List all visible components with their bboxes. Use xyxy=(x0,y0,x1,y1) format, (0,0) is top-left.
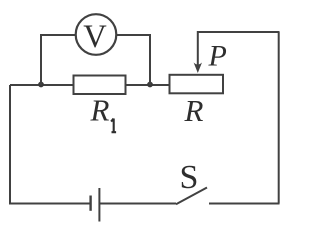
wire: slider stem down to rheostat xyxy=(197,31,199,65)
svg-text:S: S xyxy=(180,159,199,196)
svg-text:R: R xyxy=(184,93,204,128)
svg-text:V: V xyxy=(83,19,107,55)
node: right junction dot xyxy=(147,82,153,88)
wire: switch right contact to right rail xyxy=(209,203,280,205)
svg-text:R: R xyxy=(90,93,110,128)
switch S lever xyxy=(176,188,207,205)
resistor R1 body xyxy=(74,76,126,95)
rheostat R body xyxy=(170,75,224,94)
wire: left horizontal from left rail to R1 xyxy=(10,84,73,86)
wire: bottom left to battery xyxy=(9,203,91,205)
wire: voltmeter right lead xyxy=(117,34,151,36)
wire: right dot up to voltmeter xyxy=(149,34,151,85)
wire: top from right rail to slider xyxy=(198,31,280,33)
wire: battery to switch xyxy=(99,203,176,205)
battery B1 positive plate (long) xyxy=(98,188,100,222)
label R1 subscript 1 xyxy=(111,119,116,133)
voltmeter V1 circle xyxy=(76,14,117,55)
wire: voltmeter left lead xyxy=(40,34,76,36)
node: left junction dot xyxy=(38,82,44,88)
wire: left vertical rail xyxy=(9,85,11,204)
battery B1 negative plate (short) xyxy=(89,196,91,211)
wire: left dot up to voltmeter xyxy=(40,34,42,85)
wire: R1 to rheostat xyxy=(126,84,170,86)
wire: right vertical rail xyxy=(278,32,280,204)
slider arrowhead xyxy=(194,63,202,74)
svg-text:P: P xyxy=(208,40,227,73)
